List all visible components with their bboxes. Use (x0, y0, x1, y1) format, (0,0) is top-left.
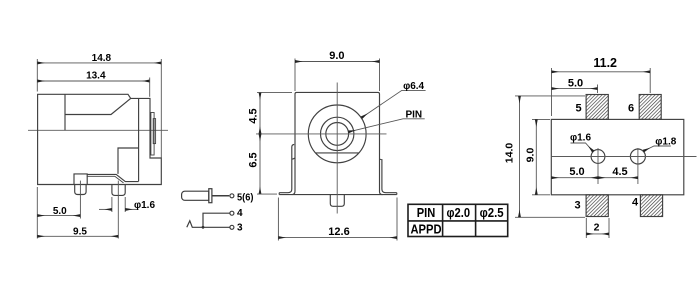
front view body (295, 92, 383, 194)
front view horizontal centerline (256, 133, 387, 135)
dimension 9.0 extension lines (294, 59, 296, 92)
svg-text:APPD: APPD (411, 222, 442, 236)
body left edge extension (36, 187, 38, 239)
svg-text:PIN: PIN (405, 109, 422, 120)
sleeve contact line 3 (187, 221, 230, 228)
svg-text:4.5: 4.5 (612, 166, 627, 178)
dimension 9.0 extension lines (532, 118, 550, 120)
left body lower edge (292, 146, 295, 195)
dimension 14.0 line (519, 96, 521, 217)
dimension 5.0 line (37, 215, 80, 217)
svg-text:13.4: 13.4 (86, 70, 106, 81)
svg-text:3: 3 (237, 222, 243, 233)
dimension 12.6 line (278, 237, 397, 239)
table row divider (408, 220, 508, 222)
svg-text:4: 4 (237, 208, 243, 219)
front view bottom line with feet (279, 194, 397, 196)
6.5 bottom extension (257, 193, 277, 195)
side view front pin tab outer (151, 113, 154, 156)
dimension 11.2 extension lines (551, 68, 553, 116)
table outer border (408, 204, 508, 236)
dimension 9.5 line (37, 235, 118, 237)
middle circle (321, 117, 354, 150)
switch contact line 4 (203, 213, 230, 227)
dimension 4.5 line (259, 92, 261, 133)
dimension 13.4 right extension (149, 78, 151, 97)
svg-text:φ1.6: φ1.6 (570, 133, 591, 144)
left foot top (279, 145, 294, 193)
right foot cap (396, 193, 398, 195)
dimension 5.0 top line (552, 88, 598, 90)
svg-text:5(6): 5(6) (237, 192, 254, 203)
svg-text:5.0: 5.0 (53, 206, 67, 217)
svg-text:6.5: 6.5 (247, 152, 259, 167)
phi1.6 arrows (99, 208, 112, 210)
hole 2 crosshair (637, 148, 639, 184)
svg-text:φ2.0: φ2.0 (447, 206, 471, 220)
dimension 12.6 extension lines (277, 198, 279, 241)
PIN leader (348, 119, 424, 132)
plug barrel (182, 191, 209, 200)
plug stem (212, 195, 229, 197)
side view barrel divider (64, 94, 66, 130)
svg-text:4: 4 (632, 196, 639, 208)
dimension 5.0 4.5 line (551, 177, 598, 179)
hole phi1.8 (630, 149, 645, 164)
left foot cap (278, 193, 280, 195)
terminal circle 4 (230, 211, 234, 215)
front view vertical centerline (336, 83, 338, 214)
right body lower edge (380, 159, 397, 193)
svg-text:5.0: 5.0 (569, 166, 584, 178)
svg-text:2: 2 (594, 221, 600, 233)
bottom view horizontal centerline (551, 156, 696, 158)
svg-text:φ2.5: φ2.5 (480, 206, 504, 220)
dimension 2 line (586, 233, 609, 235)
side view leg 1 lower (75, 185, 86, 195)
side view inner box (118, 148, 139, 174)
svg-text:6: 6 (628, 102, 634, 114)
4.5 top extension (257, 91, 292, 93)
svg-text:3: 3 (574, 199, 580, 211)
hole phi1.6 (591, 150, 605, 164)
outer circle (308, 105, 366, 163)
dimension 5.0 top extension (597, 85, 599, 94)
svg-text:4.5: 4.5 (247, 108, 259, 123)
pad 6 (639, 95, 661, 120)
dimension 6.5 line (259, 134, 261, 194)
side view leg 1 upper (74, 174, 87, 185)
side view centerline (28, 129, 168, 131)
dimension 14.0 extension lines (515, 95, 585, 97)
svg-text:9.0: 9.0 (329, 50, 344, 62)
phi6.4 leader (362, 90, 426, 117)
dimension 14.8 extension lines (36, 59, 38, 92)
svg-text:9.0: 9.0 (525, 148, 537, 163)
terminal circle 5(6) (230, 194, 234, 198)
svg-text:PIN: PIN (417, 206, 436, 220)
svg-text:φ6.4: φ6.4 (403, 81, 424, 92)
svg-text:5: 5 (575, 102, 581, 114)
svg-text:φ1.8: φ1.8 (655, 136, 676, 147)
svg-text:11.2: 11.2 (593, 56, 617, 70)
svg-text:12.6: 12.6 (328, 226, 349, 238)
bottom center tab (330, 195, 344, 207)
pad 4 (640, 195, 662, 217)
table column dividers (442, 204, 444, 236)
plug washer (209, 189, 212, 203)
phi1.8 leader right view (643, 146, 670, 151)
svg-text:5.0: 5.0 (568, 78, 583, 90)
leg 2 center extension (117, 181, 119, 239)
junction dot (202, 226, 205, 229)
bottom view body (551, 119, 684, 194)
dimension 9.0 line (295, 61, 380, 63)
dimension 2 extension lines (585, 218, 587, 238)
side view front pin tab inner (153, 119, 155, 144)
side view bore line (65, 98, 131, 114)
pin circle (326, 122, 349, 145)
side view contact plate (87, 174, 139, 181)
phi1.6 leg extension lines (111, 197, 113, 212)
pad 5 (586, 95, 608, 120)
dimension 11.2 line (552, 71, 651, 73)
svg-text:14.0: 14.0 (504, 143, 516, 164)
phi1.6 leader right view (571, 143, 594, 152)
svg-text:14.8: 14.8 (92, 53, 112, 64)
left seam tick (292, 158, 295, 159)
pad 3 (586, 195, 608, 217)
dimension 14.8 line (37, 62, 161, 64)
hole 1 crosshair (597, 148, 599, 184)
svg-text:φ1.6: φ1.6 (134, 200, 155, 211)
side view body outline (38, 94, 162, 184)
side view leg 2 lower (112, 185, 125, 196)
shield chord (315, 152, 359, 154)
svg-text:9.5: 9.5 (73, 226, 87, 237)
dimension 9.0 right line (535, 119, 537, 194)
dimension 13.4 line (37, 80, 149, 82)
terminal circle 3 (230, 225, 234, 229)
side view inner wall (138, 99, 140, 181)
leg 1 center extension (79, 181, 81, 219)
